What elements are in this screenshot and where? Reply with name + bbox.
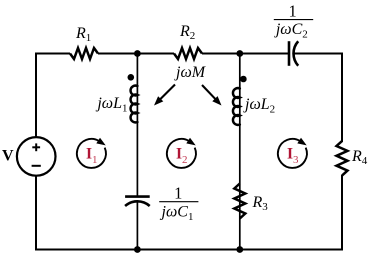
node dot top branch1 — [134, 50, 141, 57]
resistor R3 — [234, 184, 245, 219]
capacitor C2 — [289, 41, 298, 66]
inductor L1 — [131, 86, 138, 123]
voltage source V — [17, 137, 56, 176]
svg-text:V: V — [2, 148, 14, 165]
capacitor C1 — [125, 197, 150, 206]
arrow from jwM to L2 — [202, 85, 216, 100]
mesh current I1 arrow — [77, 139, 106, 168]
coupling dot of L1 — [128, 74, 135, 81]
mesh current I3 arrow — [278, 139, 307, 168]
svg-text:1: 1 — [174, 184, 182, 203]
resistor R4 — [337, 141, 348, 176]
svg-text:1: 1 — [288, 2, 296, 21]
wire branch1 vertical — [136, 54, 138, 197]
label 1/jwC2 — [274, 2, 313, 41]
coupling dot of L2 — [240, 76, 247, 83]
wire left vertical lower — [35, 175, 37, 249]
node dot bottom branch1 — [134, 246, 141, 253]
node dot bottom branch2 — [236, 246, 243, 253]
svg-text:jωM: jωM — [174, 64, 207, 81]
wire top segment R2 to capacitor C2 — [202, 53, 289, 55]
resistor R2 — [174, 48, 202, 59]
wire top-right segment — [295, 53, 343, 55]
inductor L2 — [233, 88, 240, 125]
wire bottom — [35, 249, 343, 251]
wire right vertical lower — [341, 175, 343, 250]
node dot top branch2 — [236, 50, 243, 57]
wire left vertical upper — [35, 53, 37, 138]
label 1/jwC1 — [159, 184, 198, 223]
wire right vertical upper — [341, 53, 343, 143]
wire branch1 below C1 — [136, 203, 138, 250]
mesh current I2 arrow — [167, 139, 196, 168]
wire top-middle segment — [98, 53, 174, 55]
wire branch2 vertical — [239, 54, 241, 250]
resistor R1 — [70, 48, 98, 59]
arrow from jwM to L1 — [160, 85, 175, 100]
wire top-left segment — [36, 53, 70, 55]
